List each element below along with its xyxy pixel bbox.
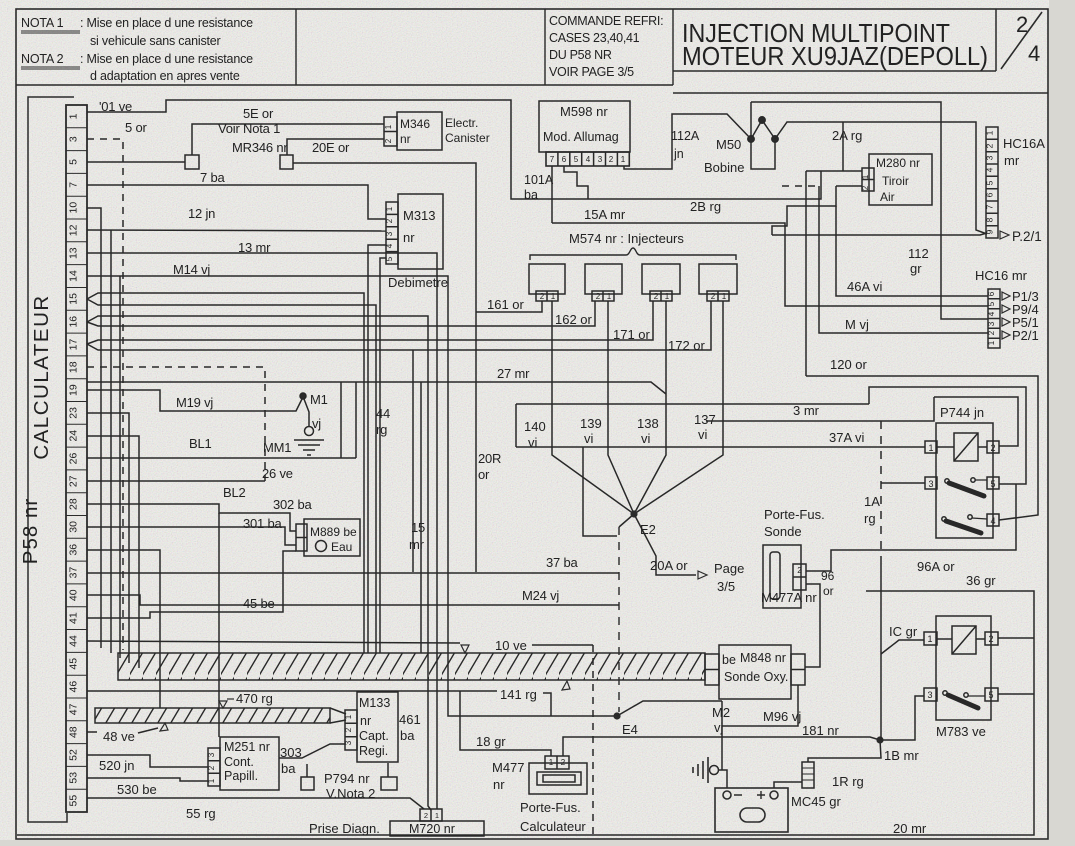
wire 15 mr vertical [412,350,414,572]
svg-text:nr: nr [493,777,505,792]
wire 112A jn to bobine [624,114,751,169]
svg-text:3: 3 [68,136,80,142]
svg-text:1R rg: 1R rg [832,774,864,789]
svg-text:M889 be: M889 be [310,525,357,539]
svg-text:5: 5 [574,155,579,164]
dashed drop to 20 mr [592,645,594,834]
svg-text:520 jn: 520 jn [99,758,134,773]
wire M783 pin2/pin5 [998,638,1034,694]
svg-text:5: 5 [990,479,995,489]
svg-text:3: 3 [385,231,394,236]
svg-text:BL1: BL1 [189,436,212,451]
connector HC16 [988,289,1000,348]
svg-text:3: 3 [598,155,603,164]
svg-text:5: 5 [385,256,394,261]
wire 37A vi [516,446,925,448]
fuse holder M477A Porte-Fus Sonde [763,545,806,608]
wire 5 or [87,161,185,163]
svg-text:20A or: 20A or [650,558,688,573]
connector M598 Mod. Allumage [539,101,751,223]
node E4 [613,712,620,719]
svg-text:2: 2 [561,758,566,767]
svg-text:COMMANDE REFRI:: COMMANDE REFRI: [549,14,663,28]
svg-text:18: 18 [68,361,80,373]
commande refri box [545,9,673,85]
svg-text:nr: nr [360,714,371,728]
wire 26 ve [87,457,356,459]
svg-text:Calculateur: Calculateur [520,819,586,834]
wire pin24 [87,436,139,668]
wire 45 be [87,551,296,618]
injector 1 [529,264,565,294]
wire 18 gr [460,691,551,756]
svg-text:171 or: 171 or [613,327,651,342]
svg-text:M346: M346 [400,117,430,131]
wire 1A rg vertical [880,421,882,560]
svg-text:M598 nr: M598 nr [560,104,608,119]
svg-text:138: 138 [637,416,659,431]
wire M280 pin1 horiz [806,170,862,172]
svg-text:44: 44 [68,635,80,647]
svg-text:Tiroir: Tiroir [882,174,909,188]
svg-text:17: 17 [68,339,80,351]
arrow 141 rg [562,681,570,690]
svg-text:2: 2 [985,143,995,148]
svg-text:2: 2 [424,811,428,820]
title block [673,9,1048,93]
wire battery minus to ground [719,770,727,788]
svg-text:5: 5 [68,159,80,165]
svg-text:mr: mr [409,537,425,552]
svg-text:1: 1 [987,340,996,345]
svg-text:27: 27 [68,475,80,487]
svg-text:161 or: 161 or [487,297,525,312]
svg-text:26: 26 [68,453,80,465]
enclosure top [516,403,869,405]
svg-text:4: 4 [586,155,591,164]
wire M313 pin5 down [380,258,386,653]
svg-text:M313: M313 [403,208,436,223]
svg-text:3: 3 [344,740,353,745]
svg-text:45: 45 [68,658,80,670]
relay P744 [925,423,999,538]
svg-text:1: 1 [551,292,556,301]
wire pin6 staircase to 2B rg [564,166,588,199]
svg-text:: Mise en place d une resistan: : Mise en place d une resistance [80,52,253,66]
svg-text:DU P58 NR: DU P58 NR [549,48,612,62]
connector M251 Cont Papillon [208,737,307,790]
svg-text:1: 1 [68,113,80,119]
svg-text:vi: vi [641,431,651,446]
wire 20E or [287,139,384,155]
wire 120 or [806,376,1038,520]
resistor P794 squares [301,763,397,790]
wire 1R rg [808,740,881,762]
svg-text:NOTA 1: NOTA 1 [21,16,64,30]
arrow 10 ve [461,645,469,653]
svg-text:1: 1 [207,778,216,783]
svg-text:1: 1 [384,124,393,129]
svg-text:2: 2 [1016,12,1028,37]
dashed E2-E4 link [618,527,620,712]
svg-text:HC16A: HC16A [1003,136,1045,151]
svg-text:3/5: 3/5 [717,579,735,594]
svg-text:12: 12 [68,224,80,236]
svg-text:4: 4 [1028,41,1040,66]
svg-text:44: 44 [376,406,390,421]
svg-text:gr: gr [910,261,922,276]
svg-text:2B rg: 2B rg [690,199,721,214]
svg-text:6: 6 [562,155,567,164]
svg-text:4: 4 [987,311,996,316]
svg-text:5: 5 [987,301,996,306]
wire pin18 dashed [87,367,265,481]
svg-text:M280 nr: M280 nr [876,156,920,170]
svg-text:7: 7 [68,182,80,188]
svg-text:ba: ba [400,728,415,743]
svg-text:6: 6 [985,192,995,197]
labels top-left [99,99,579,611]
svg-text:28: 28 [68,498,80,510]
svg-text:Eau: Eau [331,540,352,554]
svg-text:10 ve: 10 ve [495,638,527,653]
svg-text:or: or [478,467,490,482]
svg-text:172 or: 172 or [668,338,706,353]
svg-text:'01 ve: '01 ve [99,99,132,114]
svg-text:7 ba: 7 ba [200,170,225,185]
connector M280 Tiroir Air [552,154,1038,520]
connector M346 [384,112,442,150]
svg-text:1A: 1A [864,494,880,509]
coil M50 Bobine [748,102,988,376]
svg-text:Capt.: Capt. [359,729,389,743]
svg-text:CALCULATEUR: CALCULATEUR [30,294,53,459]
svg-text:36 gr: 36 gr [966,573,996,588]
svg-text:45 be: 45 be [243,596,275,611]
svg-text:1: 1 [928,443,933,453]
wire 20R or vertical [293,163,476,572]
svg-text:MOTEUR XU9JAZ(DEPOLL): MOTEUR XU9JAZ(DEPOLL) [682,41,988,71]
connector P58 CALCULATEUR [28,97,87,822]
svg-text:37 ba: 37 ba [546,555,579,570]
wire pin5 up [869,387,1026,484]
left long verticals [111,230,120,658]
wire 301 ba [87,527,296,545]
arrows P1/3 P9/4 P5/1 P2/1 [1002,292,1010,339]
svg-text:23: 23 [68,407,80,419]
svg-text:470 rg: 470 rg [236,691,273,706]
svg-text:46: 46 [68,681,80,693]
svg-text:1: 1 [861,174,870,179]
svg-text:jn: jn [673,147,684,161]
svg-text:53: 53 [68,772,80,784]
svg-text:461: 461 [399,712,421,727]
svg-text:Voir Nota 1: Voir Nota 1 [218,121,280,136]
svg-text:M720 nr: M720 nr [409,822,455,836]
wire 10 ve [87,641,593,645]
svg-text:E4: E4 [622,722,638,737]
ground M2 [693,757,708,783]
svg-text:55 rg: 55 rg [186,806,216,821]
svg-text:41: 41 [68,612,80,624]
svg-text:36: 36 [68,544,80,556]
svg-text:M vj: M vj [845,317,869,332]
svg-text:M50: M50 [716,137,741,152]
wire P.2/1 [772,233,987,235]
svg-text:5: 5 [985,180,995,185]
svg-text:nr: nr [400,132,411,146]
svg-text:6: 6 [987,291,996,296]
wire 520 jn [87,755,208,767]
svg-text:530 be: 530 be [117,782,157,797]
wire 13 mr [87,253,437,809]
wire 3 mr [706,397,934,421]
wire 530 be [87,778,208,781]
svg-text:Prise Diagn.: Prise Diagn. [309,821,380,836]
svg-text:Papill.: Papill. [224,769,258,783]
connector M313 Debimetre [368,194,443,653]
svg-text:18 gr: 18 gr [476,734,506,749]
svg-text:nr: nr [403,230,415,245]
svg-text:19: 19 [68,384,80,396]
svg-text:302 ba: 302 ba [273,497,313,512]
svg-text:Bobine: Bobine [704,160,744,175]
connector M133 Capt Regime [279,692,398,762]
wire pin17 chevron / 171 or / 172 or [87,301,711,350]
svg-text:Mod. Allumag: Mod. Allumag [543,130,619,144]
svg-text:Cont.: Cont. [224,755,254,769]
wire 5E or [192,124,384,155]
wire M19 vj [87,390,303,411]
svg-text:137: 137 [694,412,716,427]
svg-text:27 mr: 27 mr [497,366,530,381]
wire 7 ba [87,185,386,219]
svg-text:2: 2 [540,292,545,301]
wire pin3 dashed [87,139,123,650]
svg-text:26 ve: 26 ve [262,466,293,481]
svg-text:M477A nr: M477A nr [761,590,817,605]
svg-text:3: 3 [987,321,996,326]
svg-text:: Mise en place d une resistan: : Mise en place d une resistance [80,16,253,30]
svg-text:20R: 20R [478,451,501,466]
svg-text:1B mr: 1B mr [884,748,919,763]
wire M24 vj [87,595,619,605]
svg-text:2: 2 [654,292,659,301]
svg-text:Electr.: Electr. [445,116,478,130]
arrow 48 ve [160,723,168,731]
svg-text:CASES 23,40,41: CASES 23,40,41 [549,31,640,45]
svg-text:vi: vi [698,427,708,442]
svg-text:8: 8 [985,217,995,222]
relay M783 [924,616,998,720]
svg-text:1: 1 [435,811,439,820]
svg-text:1: 1 [607,292,612,301]
arrow 470 rg [219,701,227,708]
svg-text:Page: Page [714,561,744,576]
node M1 drop to MM1 [304,399,309,426]
svg-text:301 ba: 301 ba [243,516,283,531]
connector M720 Prise Diag [390,809,484,836]
svg-text:12 jn: 12 jn [188,206,215,221]
wire 01 ve + 2B rg run [87,100,821,199]
wire 48 ve stub [87,728,158,733]
svg-text:2: 2 [344,727,353,732]
wire IC gr [881,640,924,654]
svg-text:V.Nota 2: V.Nota 2 [326,786,375,801]
svg-text:M96 vj: M96 vj [763,709,801,724]
svg-text:M2: M2 [712,705,730,720]
svg-text:141 rg: 141 rg [500,687,537,702]
svg-text:96A or: 96A or [917,559,955,574]
svg-text:Debimetre: Debimetre [388,275,448,290]
wire 161 or [476,301,542,312]
svg-text:101A: 101A [524,173,554,187]
wire 2A rg [775,122,987,234]
svg-text:M477: M477 [492,760,525,775]
svg-text:1: 1 [985,130,995,135]
svg-text:rg: rg [864,511,876,526]
svg-text:M1: M1 [310,392,328,407]
svg-text:46A vi: 46A vi [847,279,883,294]
svg-text:or: or [823,584,834,598]
resistor MR346 sq2 [280,155,293,169]
svg-text:2: 2 [384,138,393,143]
svg-text:Sonde Oxy.: Sonde Oxy. [724,670,788,684]
svg-text:4: 4 [990,516,995,526]
injector 2 [585,264,622,294]
svg-text:303: 303 [280,745,302,760]
node E2 [619,514,634,527]
svg-text:139: 139 [580,416,602,431]
injector 3 [642,264,680,294]
svg-text:13 mr: 13 mr [238,240,271,255]
svg-text:7: 7 [985,204,995,209]
wire pin15 chevron [87,293,376,653]
svg-text:1: 1 [549,758,554,767]
svg-text:P794 nr: P794 nr [324,771,370,786]
wire M14 vj [87,276,616,716]
svg-text:47: 47 [68,703,80,715]
svg-text:24: 24 [68,430,80,442]
svg-text:4: 4 [985,167,995,172]
svg-text:7: 7 [550,155,555,164]
shielded band 2 [95,708,346,723]
svg-text:Porte-Fus.: Porte-Fus. [764,507,825,522]
svg-text:Canister: Canister [445,131,490,145]
wire E4 to M2 [617,701,722,716]
svg-text:rg: rg [376,422,387,437]
svg-text:d adaptation en apres vente: d adaptation en apres vente [90,69,240,83]
brace [530,248,736,260]
svg-text:P.2/1: P.2/1 [1012,229,1042,244]
svg-text:2A rg: 2A rg [832,128,862,143]
svg-text:ba: ba [524,188,538,202]
svg-text:Porte-Fus.: Porte-Fus. [520,800,581,815]
svg-text:5: 5 [988,690,993,700]
wire pin36 [87,550,160,708]
svg-text:112: 112 [908,246,929,261]
svg-text:20E or: 20E or [312,140,350,155]
svg-text:2: 2 [987,330,996,335]
svg-text:2: 2 [988,634,993,644]
injector pin1 drops [552,301,634,514]
svg-text:55: 55 [68,795,80,807]
svg-text:mr: mr [1004,153,1020,168]
svg-text:20 mr: 20 mr [893,821,927,836]
svg-text:M783 ve: M783 ve [936,724,986,739]
svg-text:10: 10 [68,202,80,214]
connector HC16A [986,127,998,238]
fuse MC45 [802,762,814,788]
wire branch vertical [420,382,422,653]
wire 27 mr [87,382,666,394]
wire pin16 chevron [87,301,595,810]
svg-text:M14 vj: M14 vj [173,262,210,277]
svg-text:si vehicule sans canister: si vehicule sans canister [90,34,221,48]
svg-text:2: 2 [207,765,216,770]
svg-text:MC45 gr: MC45 gr [791,794,842,809]
svg-text:Sonde: Sonde [764,524,802,539]
wire 20A or to page 3/5 [634,514,696,575]
shielded band 1 [118,653,705,680]
svg-text:3: 3 [985,155,995,160]
sensor M848 Sonde Oxy [705,645,805,699]
svg-text:2: 2 [609,155,614,164]
svg-text:13: 13 [68,247,80,259]
svg-text:VOIR PAGE 3/5: VOIR PAGE 3/5 [549,65,634,79]
svg-text:IC gr: IC gr [889,624,918,639]
svg-text:96: 96 [821,569,835,583]
svg-text:181 nr: 181 nr [802,723,840,738]
svg-text:vj: vj [312,416,321,431]
wire 181 nr [563,737,880,756]
svg-text:4: 4 [385,243,394,248]
nota box [16,9,545,85]
wire M477A lower pin [805,584,820,667]
svg-text:2: 2 [385,218,394,223]
svg-text:48 ve: 48 ve [103,729,135,744]
wire pin23 [87,413,129,663]
svg-text:MM1: MM1 [263,440,291,455]
svg-text:3: 3 [207,752,216,757]
wire P744 pin2 loop [937,446,987,448]
svg-text:3: 3 [927,690,932,700]
svg-text:37: 37 [68,567,80,579]
svg-text:P744 jn: P744 jn [940,405,984,420]
wire 15A mr vertical from pin7 [551,166,553,223]
svg-text:Air: Air [880,190,895,204]
svg-text:1: 1 [621,155,626,164]
arrow P.2/1 [1000,231,1009,239]
svg-text:M133: M133 [359,696,390,710]
wire 1B mr to M783 pin3 [880,696,924,740]
svg-text:5 or: 5 or [125,120,147,135]
svg-text:2: 2 [861,185,870,190]
ground MM1 [294,440,324,455]
fuse holder M477 Porte-Fus Calculateur [529,756,587,794]
wire 12 jn [87,230,386,231]
svg-text:BL2: BL2 [223,485,246,500]
svg-text:5E or: 5E or [243,106,274,121]
wire 15A mr to P9/4 [552,223,988,306]
svg-text:M848 nr: M848 nr [740,651,786,665]
wire M vj vertical [819,186,988,333]
svg-text:P58 nr: P58 nr [19,498,42,564]
svg-text:14: 14 [68,270,80,282]
svg-text:M251 nr: M251 nr [224,740,270,754]
svg-text:112A: 112A [671,129,700,143]
svg-text:2: 2 [711,292,716,301]
